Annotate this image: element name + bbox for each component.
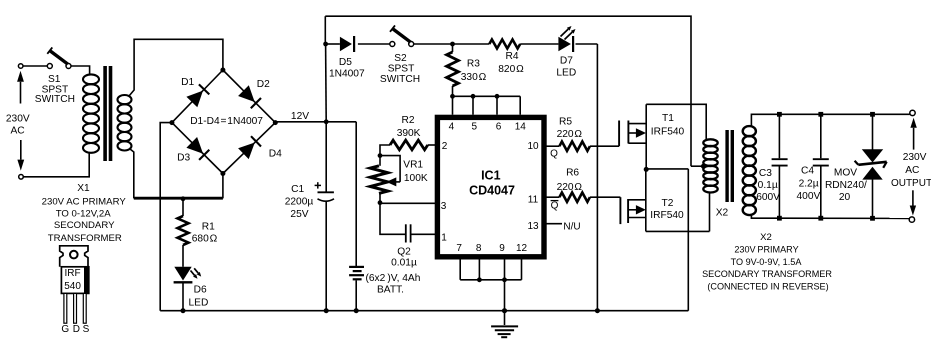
node bus dot pin4 xyxy=(450,94,455,99)
VR1 wiper arrow xyxy=(380,156,400,182)
wire C2 to pin1 xyxy=(411,233,438,235)
svg-text:D6: D6 xyxy=(194,285,207,296)
wire D5 to S2 xyxy=(358,43,390,45)
diode D5 1N4007 xyxy=(340,37,352,52)
wire VR1 top stub xyxy=(379,156,381,166)
svg-text:0.1µ: 0.1µ xyxy=(758,180,778,191)
svg-text:SWITCH: SWITCH xyxy=(35,94,75,105)
wire pin7 stub xyxy=(459,257,461,280)
node bottom rail dot C1 xyxy=(324,308,329,313)
resistor R5 220ohm xyxy=(559,142,590,151)
node bottom rail dot D7-return xyxy=(595,308,600,313)
svg-text:SWITCH: SWITCH xyxy=(380,74,420,85)
wire pin9 bus to ground rail xyxy=(504,280,506,311)
node bridge right vertex xyxy=(273,120,278,125)
svg-text:230V PRIMARY: 230V PRIMARY xyxy=(734,244,798,254)
svg-text:Q2: Q2 xyxy=(397,246,411,257)
svg-text:IRF540: IRF540 xyxy=(650,210,684,221)
MOV RDN240/20 wire top xyxy=(872,114,874,149)
wire C1 top xyxy=(325,122,327,192)
node R3 top junction xyxy=(450,42,455,47)
svg-text:T2: T2 xyxy=(662,198,674,209)
transistor T1 body arrow xyxy=(628,132,636,134)
resistor R4 820ohm xyxy=(489,40,520,49)
wire pin14 stub xyxy=(519,96,521,114)
node VR1 top junction xyxy=(378,153,383,158)
wire center tap feed xyxy=(691,165,704,167)
transformer X2 right winding xyxy=(743,126,756,136)
wire 12V from bridge right vertex xyxy=(275,121,356,123)
transistor T2 drain stub xyxy=(628,199,646,201)
wire X1 secondary bottom lead xyxy=(130,149,223,198)
svg-text:2: 2 xyxy=(442,141,448,152)
svg-text:AC: AC xyxy=(11,126,25,137)
svg-text:VR1: VR1 xyxy=(403,159,423,170)
svg-text:220 Ω: 220 Ω xyxy=(557,182,583,193)
svg-text:SECONDARY TRANSFORMER: SECONDARY TRANSFORMER xyxy=(702,269,832,279)
transistor T2 channel bar xyxy=(627,199,629,223)
svg-text:C1: C1 xyxy=(291,184,304,195)
svg-text:OUTPUT: OUTPUT xyxy=(891,178,931,189)
svg-text:G: G xyxy=(61,324,69,335)
wire X2 right bottom lead xyxy=(751,215,779,219)
svg-text:5: 5 xyxy=(472,121,478,132)
svg-text:AC: AC xyxy=(905,165,919,176)
svg-text:0.01µ: 0.01µ xyxy=(391,258,417,269)
svg-text:R4: R4 xyxy=(505,51,518,62)
svg-text:R2: R2 xyxy=(401,115,414,126)
svg-text:CD4047: CD4047 xyxy=(469,183,515,197)
node ground rail junction xyxy=(502,308,507,313)
battery B1 xyxy=(349,266,364,268)
svg-text:6: 6 xyxy=(496,121,502,132)
svg-text:BATT.: BATT. xyxy=(377,285,404,296)
wire bridge edge left-bottom xyxy=(172,123,223,174)
svg-text:TO 0-12V,2A: TO 0-12V,2A xyxy=(56,208,112,219)
wire bridge edge top-right xyxy=(223,70,275,123)
capacitor C1 xyxy=(318,191,334,193)
wire VR1 bottom to C2 xyxy=(380,203,406,235)
capacitor C4 xyxy=(820,114,822,158)
op-amp IC1 CD4047 body xyxy=(437,117,544,256)
resistor R3 330ohm xyxy=(447,52,459,86)
node bus dot pin9 xyxy=(502,277,507,282)
diode D2 xyxy=(238,85,255,102)
wire R5 to T1 gate xyxy=(590,145,619,147)
node D5 anode junction xyxy=(323,42,328,47)
svg-text:RDN240/: RDN240/ xyxy=(825,180,867,191)
svg-text:D4: D4 xyxy=(269,148,282,159)
svg-text:D7: D7 xyxy=(560,56,573,67)
svg-text:12: 12 xyxy=(516,243,528,254)
svg-text:11: 11 xyxy=(528,194,539,205)
wire input top terminal to S1 xyxy=(23,65,47,67)
wire R2 to pin2 xyxy=(428,144,438,146)
IRF540 package body xyxy=(61,267,88,294)
wire pin11 to R6 xyxy=(544,196,559,198)
svg-text:1N4007: 1N4007 xyxy=(329,68,365,79)
wire R6 to T2 gate xyxy=(590,196,621,198)
transformer X1 primary winding xyxy=(83,74,99,84)
IRF540 package tab xyxy=(60,246,88,267)
wire R1 to D6 xyxy=(182,245,184,267)
transistor T2 gate wire xyxy=(619,197,621,224)
svg-text:7: 7 xyxy=(456,243,462,254)
node 12V junction at C1 xyxy=(324,119,329,124)
svg-text:230V: 230V xyxy=(903,152,927,163)
LED D7 xyxy=(558,37,571,52)
transformer X1 secondary winding xyxy=(118,95,132,104)
node output top terminal xyxy=(910,110,915,115)
svg-text:14: 14 xyxy=(515,121,527,132)
IRF540 pins xyxy=(64,293,67,323)
node bridge left vertex xyxy=(169,120,174,125)
svg-text:MOV: MOV xyxy=(834,167,857,178)
svg-text:12V: 12V xyxy=(291,111,309,122)
wire R4 to D7 xyxy=(520,43,558,45)
capacitor C3 xyxy=(778,114,780,158)
wire pin10 to R5 xyxy=(544,145,559,147)
MOV symbol xyxy=(862,149,883,162)
svg-text:IC1: IC1 xyxy=(481,168,501,182)
svg-text:LED: LED xyxy=(188,298,208,309)
svg-text:(6x2 )V, 4Ah: (6x2 )V, 4Ah xyxy=(366,273,421,284)
wire IC bottom bus xyxy=(460,279,521,281)
wire pin13 stub xyxy=(544,223,562,225)
svg-text:330 Ω: 330 Ω xyxy=(461,72,487,83)
svg-text:20: 20 xyxy=(839,192,851,203)
svg-text:S: S xyxy=(83,324,90,335)
svg-text:R1: R1 xyxy=(202,222,215,233)
svg-text:D2: D2 xyxy=(257,79,270,90)
svg-text:1: 1 xyxy=(441,233,447,244)
svg-text:TRANSFORMER: TRANSFORMER xyxy=(48,233,122,244)
LED D6 light arrows xyxy=(191,271,195,276)
wire battery bottom xyxy=(355,280,357,310)
wire T1 drain-source bus xyxy=(645,104,647,169)
transistor T1 drain stub xyxy=(628,123,646,125)
svg-text:X2: X2 xyxy=(760,232,772,243)
svg-text:4: 4 xyxy=(449,121,455,132)
transistor T1 source stub xyxy=(628,142,646,144)
svg-text:25V: 25V xyxy=(290,209,308,220)
wire T2 bottom to X2 winding xyxy=(709,192,711,231)
transistor T1 gate wire xyxy=(618,121,620,147)
diode D3 xyxy=(186,137,203,154)
svg-text:540: 540 xyxy=(64,281,81,292)
svg-text:820 Ω: 820 Ω xyxy=(498,64,524,75)
node C3 top xyxy=(777,112,782,117)
svg-text:X1: X1 xyxy=(77,183,90,194)
node output bottom terminal xyxy=(909,217,914,222)
output arrow down xyxy=(912,190,914,205)
wire D7 cathode to ground drop xyxy=(576,43,598,45)
wire S2 to R3 junction xyxy=(414,43,453,45)
LED D6 xyxy=(174,267,191,281)
LED D7 light arrows xyxy=(561,29,569,36)
svg-text:C4: C4 xyxy=(801,166,814,177)
svg-text:400V: 400V xyxy=(797,191,821,202)
resistor R1 680ohm xyxy=(178,216,189,245)
svg-text:S1: S1 xyxy=(48,74,61,85)
wire output bottom rail xyxy=(779,217,909,219)
wire pin8 stub xyxy=(478,257,480,280)
svg-text:N/U: N/U xyxy=(563,221,580,232)
svg-text:230V AC PRIMARY: 230V AC PRIMARY xyxy=(42,196,127,207)
svg-text:T1: T1 xyxy=(662,113,674,124)
node VR1 bottom junction xyxy=(378,200,383,205)
node C3 bottom xyxy=(777,216,782,221)
wire X2 right top lead xyxy=(751,114,779,127)
svg-text:8: 8 xyxy=(476,243,482,254)
node MOV top xyxy=(870,112,875,117)
svg-text:R3: R3 xyxy=(467,59,480,70)
svg-text:3: 3 xyxy=(441,201,447,212)
transformer X2 left winding xyxy=(703,139,717,146)
node C4 top xyxy=(818,112,823,117)
diode D1 xyxy=(186,91,203,108)
node bottom rail dot battery xyxy=(354,308,359,313)
transformer X1 core xyxy=(103,66,107,161)
node bus dot pin6 xyxy=(495,94,500,99)
node bridge top vertex xyxy=(220,68,225,73)
svg-text:680 Ω: 680 Ω xyxy=(192,233,218,244)
wire battery top xyxy=(355,122,357,266)
svg-text:2.2µ: 2.2µ xyxy=(799,178,819,189)
wire R1 top stub xyxy=(182,199,184,216)
svg-text:Q: Q xyxy=(551,201,559,212)
transistor T2 source stub xyxy=(628,217,646,219)
svg-text:X2: X2 xyxy=(716,207,729,218)
wire T2 box bottom edge xyxy=(646,230,710,232)
node: AC input bottom terminal xyxy=(19,175,24,180)
wire bridge edge bottom-right xyxy=(223,123,275,174)
ground symbol xyxy=(491,325,518,327)
svg-text:D1-D4 = 1N4007: D1-D4 = 1N4007 xyxy=(190,116,263,127)
wire bridge edge left-top xyxy=(172,70,223,123)
node T1-T2 junction xyxy=(644,167,649,172)
wire X1 primary bottom lead xyxy=(23,153,89,177)
node bus dot pin8 xyxy=(477,277,482,282)
svg-text:R6: R6 xyxy=(566,167,579,178)
svg-text:SECONDARY: SECONDARY xyxy=(54,220,115,231)
transformer X2 core xyxy=(725,130,728,202)
MOV wire bottom xyxy=(872,180,874,219)
wire T1 box top edge xyxy=(646,104,706,140)
svg-text:LED: LED xyxy=(556,68,576,79)
capacitor C2 (Q2) xyxy=(405,224,407,242)
wire pin6 stub xyxy=(496,96,498,114)
switch S1 xyxy=(47,64,52,69)
transistor T1 channel bar xyxy=(627,121,629,144)
node bus dot pin5 xyxy=(471,94,476,99)
svg-text:Q: Q xyxy=(550,149,558,160)
wire X1 secondary top lead to bridge top xyxy=(129,39,223,96)
node bottom rail dot D6 xyxy=(181,308,186,313)
svg-text:600V: 600V xyxy=(756,192,780,203)
node bridge bottom vertex xyxy=(220,171,225,176)
resistor R6 220ohm xyxy=(559,193,590,202)
wire R1 top line xyxy=(134,198,223,200)
node MOV bottom xyxy=(870,216,875,221)
transistor T2 body arrow xyxy=(628,209,636,211)
svg-text:10: 10 xyxy=(527,141,539,152)
wire ground stub xyxy=(504,311,506,325)
svg-text:D5: D5 xyxy=(339,57,352,68)
svg-text:(CONNECTED IN REVERSE): (CONNECTED IN REVERSE) xyxy=(707,282,828,292)
wire output top rail xyxy=(779,113,909,115)
node R1 top junction xyxy=(181,196,186,201)
wire C1 bottom xyxy=(325,202,327,311)
svg-text:D1: D1 xyxy=(181,77,194,88)
wire VR1 bottom stub xyxy=(379,193,381,202)
ac input span arrow down xyxy=(20,140,22,160)
svg-text:100K: 100K xyxy=(404,173,428,184)
svg-text:SPST: SPST xyxy=(388,63,415,74)
svg-text:230V: 230V xyxy=(6,114,30,125)
svg-text:TO 9V-0-9V, 1.5A: TO 9V-0-9V, 1.5A xyxy=(731,257,803,267)
wire D6 to bottom rail xyxy=(182,283,184,311)
wire VR1 bottom to pin3 xyxy=(379,202,381,205)
output arrow up xyxy=(913,128,915,150)
svg-text:C3: C3 xyxy=(759,168,772,179)
node C4 bottom xyxy=(818,216,823,221)
wire pin4 stub xyxy=(452,96,454,114)
svg-text:IRF540: IRF540 xyxy=(651,126,685,137)
wire 12V node to D5 junction xyxy=(325,44,328,122)
wire top rail xyxy=(325,16,691,166)
wire top rail to D5 line xyxy=(324,16,326,44)
svg-text:R5: R5 xyxy=(559,117,572,128)
switch S2 xyxy=(390,42,395,47)
wire pin12 stub xyxy=(521,257,523,280)
svg-text:D: D xyxy=(73,324,80,335)
wire R2 left corner xyxy=(380,145,390,156)
wire junction to R4 xyxy=(453,43,490,45)
wire pin9 stub xyxy=(504,257,506,280)
wire bottom rail xyxy=(160,310,688,312)
ac input span arrow up xyxy=(20,82,22,104)
svg-text:9: 9 xyxy=(499,243,505,254)
potentiometer VR1 100K xyxy=(370,166,388,194)
wire IC top bus xyxy=(453,95,521,97)
svg-text:390K: 390K xyxy=(397,128,421,139)
resistor R2 390K xyxy=(390,140,428,150)
wire T2 drain-source bus xyxy=(645,169,647,231)
wire bridge left vertex to ground rail xyxy=(160,123,172,311)
wire S1 to X1 primary top xyxy=(71,66,90,76)
svg-text:D3: D3 xyxy=(177,152,190,163)
node: AC input top terminal xyxy=(18,64,23,69)
diode D4 xyxy=(238,143,255,160)
node X2 center tap xyxy=(701,164,706,169)
svg-text:2200µ: 2200µ xyxy=(285,197,314,208)
wire pin5 stub xyxy=(472,96,474,114)
svg-text:IRF: IRF xyxy=(65,268,81,279)
wire D7 ground drop vertical xyxy=(596,44,598,311)
wire R3 stubs xyxy=(452,44,454,52)
wire T2 box top edge xyxy=(646,168,689,170)
svg-text:220 Ω: 220 Ω xyxy=(557,129,583,140)
wire to D5 xyxy=(326,43,340,45)
svg-text:13: 13 xyxy=(527,221,539,232)
wire T2 box right edge xyxy=(687,169,689,311)
